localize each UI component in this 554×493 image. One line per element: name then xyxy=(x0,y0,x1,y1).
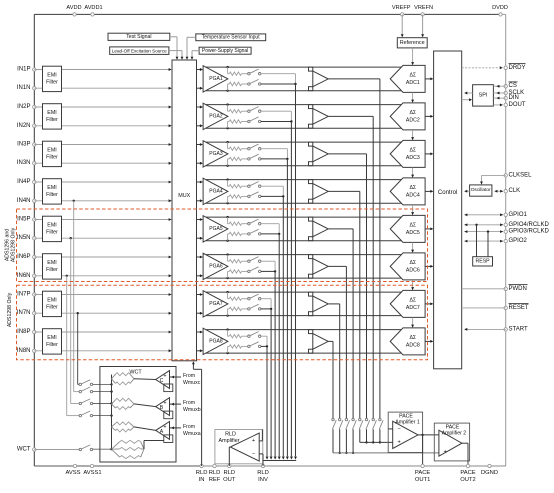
pin RLD INV xyxy=(257,464,269,483)
buffer amp ch7 xyxy=(309,292,329,316)
pin IN7N xyxy=(17,310,36,316)
wire PGA4 output bottom xyxy=(206,202,403,204)
svg-text:EMI: EMI xyxy=(47,110,56,116)
wire ch1 tap bottom xyxy=(261,83,297,85)
svg-text:ΔΣ: ΔΣ xyxy=(409,185,416,191)
svg-text:IN2P: IN2P xyxy=(17,104,30,110)
switch PGA2 top xyxy=(248,107,261,113)
svg-text:From: From xyxy=(183,373,195,379)
svg-text:Filter: Filter xyxy=(46,305,58,311)
PACE amplifier 1 block xyxy=(388,412,422,452)
wire RLD noninverting input xyxy=(259,430,262,441)
svg-text:OUT: OUT xyxy=(223,477,236,483)
wire pace amp 1 inverting stub xyxy=(388,428,393,430)
wire ch4 tap bottom xyxy=(261,195,284,197)
wire PACE bus ch2 xyxy=(328,116,373,418)
svg-text:IN7N: IN7N xyxy=(17,310,31,316)
svg-text:Wmuxb: Wmuxb xyxy=(183,407,201,413)
wire PGA7 output bottom xyxy=(206,314,403,316)
wire temperature sensor to MUX xyxy=(186,37,196,60)
svg-text:−: − xyxy=(252,451,255,457)
wire SPI to control xyxy=(464,92,472,95)
svg-text:ADC3: ADC3 xyxy=(406,155,420,161)
wire WCT resistor to amp B xyxy=(134,404,156,407)
svg-text:PGA3: PGA3 xyxy=(209,151,223,157)
svg-text:IN5N: IN5N xyxy=(17,235,31,241)
svg-text:IN7P: IN7P xyxy=(17,292,30,298)
svg-text:ΔΣ: ΔΣ xyxy=(409,222,416,228)
switch PACE ch5 xyxy=(352,418,356,429)
svg-text:ADC6: ADC6 xyxy=(406,267,420,273)
pin VREFP xyxy=(392,5,411,16)
svg-text:ΔΣ: ΔΣ xyxy=(409,110,416,116)
wire IN6P to MUX xyxy=(34,256,171,259)
pin IN2P xyxy=(17,104,36,110)
pin AVDD xyxy=(66,5,81,16)
pin WCT xyxy=(17,447,36,453)
svg-text:ΔΣ: ΔΣ xyxy=(409,297,416,303)
switch PGA5 bottom xyxy=(248,229,261,235)
wire test signal to MUX xyxy=(170,37,179,60)
wire reference chain to ADC4 xyxy=(411,167,414,177)
lead-off excitation source block xyxy=(110,47,169,55)
switch PACE ch4 xyxy=(359,418,363,429)
pin START xyxy=(464,326,528,332)
svg-text:+: + xyxy=(398,439,401,445)
svg-text:Filter: Filter xyxy=(46,342,58,348)
wire GPIO4 to RESP xyxy=(475,224,477,257)
pin AVSS1 xyxy=(83,464,101,476)
wire RLD IN to MUX xyxy=(192,361,202,466)
switch PGA5 top xyxy=(248,219,261,225)
wire MUX to PGA6 negative xyxy=(197,274,204,277)
pin DGND xyxy=(481,464,498,476)
label ADS1298 Only xyxy=(7,292,13,327)
pin VREFN xyxy=(414,5,433,16)
svg-text:ADC4: ADC4 xyxy=(406,192,420,198)
op-amp RLD xyxy=(219,431,260,461)
pin IN3P xyxy=(17,142,36,148)
ADC4 delta-sigma modulator xyxy=(390,178,425,205)
wire WCT internal bus xyxy=(111,375,113,450)
svg-text:CLKSEL: CLKSEL xyxy=(509,172,533,178)
svg-text:AVDD1: AVDD1 xyxy=(84,5,102,11)
svg-text:VREFN: VREFN xyxy=(414,5,433,11)
svg-text:Temperature Sensor Input: Temperature Sensor Input xyxy=(202,34,260,40)
switch PGA8 bottom xyxy=(248,342,261,348)
EMI filter ch1 xyxy=(43,66,62,91)
wire reference chain to ADC1 xyxy=(411,48,414,65)
svg-text:Amplifier 1: Amplifier 1 xyxy=(395,420,420,426)
svg-text:DRDY: DRDY xyxy=(509,65,526,71)
svg-text:RLD: RLD xyxy=(225,431,236,437)
svg-text:GPIO1: GPIO1 xyxy=(509,212,528,218)
buffer amp ch4 xyxy=(309,180,329,204)
wire MUX to PGA5 negative xyxy=(197,237,204,240)
wire VREFP to reference xyxy=(401,14,404,37)
switch PGA2 bottom xyxy=(248,117,261,123)
svg-text:MUX: MUX xyxy=(178,193,190,199)
wire RLD bus ch7 xyxy=(270,309,273,460)
svg-text:DOUT: DOUT xyxy=(509,102,526,108)
wire IN3N to MUX xyxy=(34,162,171,165)
switch PACE ch7 xyxy=(339,418,343,429)
svg-text:Control: Control xyxy=(438,190,457,196)
wire IN5N to MUX xyxy=(34,237,171,240)
svg-text:IN6N: IN6N xyxy=(17,273,31,279)
pin RLD IN xyxy=(196,464,208,483)
buffer amp ch5 xyxy=(309,217,329,241)
svg-text:ADC8: ADC8 xyxy=(406,342,420,348)
pin AVDD1 xyxy=(84,5,102,16)
wire GPIO3 to RESP xyxy=(487,230,489,256)
pin IN3N xyxy=(17,160,36,166)
pin IN5N xyxy=(17,235,36,241)
wire MUX to PGA3 negative xyxy=(197,162,204,165)
svg-text:IN5P: IN5P xyxy=(17,217,30,223)
resistor network WCT A xyxy=(112,422,135,432)
wire ch5 tap bottom xyxy=(261,233,280,235)
buffer amp ch1 xyxy=(309,67,329,91)
power-supply signal block xyxy=(199,47,251,54)
pin PWDN xyxy=(462,285,528,292)
wire RLD INV to inverting input xyxy=(259,454,263,466)
svg-text:VREFP: VREFP xyxy=(392,5,411,11)
svg-text:REF: REF xyxy=(209,477,221,483)
wire reference chain to ADC5 xyxy=(411,205,414,215)
wire IN5N tap to WCT switch xyxy=(70,237,80,404)
wire PACE bus ch3 xyxy=(328,154,366,418)
op-amp PGA8 xyxy=(203,328,228,354)
feedback loop WCT A xyxy=(164,435,173,443)
wire ch6 tap top xyxy=(261,261,275,271)
wire ADC4 to control xyxy=(425,190,433,193)
wire MUX to PGA3 positive xyxy=(197,143,204,146)
wire reference chain to ADC3 xyxy=(411,130,414,140)
svg-text:Wmuxa: Wmuxa xyxy=(183,431,201,437)
resistor PGA1 top xyxy=(228,67,248,75)
svg-text:IN8N: IN8N xyxy=(17,348,31,354)
svg-text:PWDN: PWDN xyxy=(509,286,527,292)
wire reference chain to ADC6 xyxy=(411,242,414,252)
svg-text:EMI: EMI xyxy=(47,148,56,154)
wire RLD bus ch3 xyxy=(286,159,289,460)
wire ADC8 to control xyxy=(425,340,433,343)
switch WCT input xyxy=(79,387,113,393)
svg-text:START: START xyxy=(509,326,528,332)
ADC2 delta-sigma modulator xyxy=(390,103,425,130)
pin GPIO1 xyxy=(464,212,527,218)
switch WCT input xyxy=(79,380,113,386)
PACE amplifier 2 block xyxy=(434,423,469,461)
switch PACE ch1 xyxy=(379,418,383,429)
wire MUX to PGA5 positive xyxy=(197,218,204,221)
reference block xyxy=(397,38,427,48)
wire IN3P to MUX xyxy=(34,143,171,146)
label From Wmuxb xyxy=(183,400,201,413)
pin CS xyxy=(493,82,517,89)
svg-text:EMI: EMI xyxy=(47,223,56,229)
resistor PGA3 top xyxy=(228,142,248,150)
pin CLKSEL xyxy=(480,172,532,184)
wire RLD bus ch5 xyxy=(278,234,281,460)
wire IN8P to MUX xyxy=(34,331,171,334)
svg-text:ADC5: ADC5 xyxy=(406,230,420,236)
wire RLD output xyxy=(229,447,230,466)
wire from Wmuxb xyxy=(170,403,182,406)
svg-text:RLD: RLD xyxy=(223,470,235,476)
svg-text:PACE: PACE xyxy=(415,470,430,476)
oscillator block xyxy=(470,185,492,196)
svg-text:ΔΣ: ΔΣ xyxy=(409,147,416,153)
chip boundary ADS129x xyxy=(34,14,505,466)
wire ch4 tap top xyxy=(261,186,283,196)
svg-text:+: + xyxy=(164,424,167,430)
svg-text:IN: IN xyxy=(199,477,205,483)
pin RESET xyxy=(462,304,529,311)
wire IN1P to MUX xyxy=(34,68,171,71)
pin GPIO2 xyxy=(464,238,527,244)
svg-text:Power-Supply Signal: Power-Supply Signal xyxy=(202,48,248,54)
resistor PGA8 bottom xyxy=(228,345,248,353)
wire PACE OUT2 xyxy=(462,443,468,466)
wire IN2N to MUX xyxy=(34,124,171,127)
svg-text:ΔΣ: ΔΣ xyxy=(409,335,416,341)
svg-text:+: + xyxy=(252,438,255,444)
wire PACE bus ch5 xyxy=(328,229,353,418)
pin IN1P xyxy=(17,67,36,73)
svg-text:PGA5: PGA5 xyxy=(209,226,223,232)
wire MUX to PGA2 positive xyxy=(197,106,204,109)
wire MUX to PGA6 positive xyxy=(197,256,204,259)
svg-text:Filter: Filter xyxy=(46,117,58,123)
wire ch3 tap bottom xyxy=(261,158,289,160)
resistor PGA2 bottom xyxy=(228,120,248,128)
switch PACE ch8 xyxy=(332,418,336,429)
RLD amplifier block xyxy=(215,430,263,464)
svg-text:Lead-Off Excitation Source: Lead-Off Excitation Source xyxy=(112,48,167,53)
resistor PGA4 top xyxy=(228,180,248,188)
op-amp PGA2 xyxy=(203,103,228,129)
svg-text:IN4P: IN4P xyxy=(17,179,30,185)
wire reference chain to ADC7 xyxy=(411,280,414,290)
svg-text:SPI: SPI xyxy=(479,93,488,99)
svg-text:WCT: WCT xyxy=(17,447,31,453)
switch WCT input xyxy=(79,399,113,405)
resistor network WCT output xyxy=(112,440,145,458)
pin IN7P xyxy=(17,292,36,298)
svg-text:B: B xyxy=(160,405,164,411)
EMI filter ch4 xyxy=(43,179,62,204)
svg-text:Test Signal: Test Signal xyxy=(126,34,151,40)
svg-text:IN6P: IN6P xyxy=(17,254,30,260)
pin IN2N xyxy=(17,123,36,129)
pin IN4N xyxy=(17,198,36,204)
buffer amp ch8 xyxy=(309,330,329,354)
wire reference chain to ADC8 xyxy=(411,317,414,327)
svg-text:IN3P: IN3P xyxy=(17,142,30,148)
control block xyxy=(434,51,462,369)
wire IN4N tap to WCT switch xyxy=(73,200,80,392)
label From Wmuxa xyxy=(183,424,201,437)
buffer amp ch2 xyxy=(309,105,329,129)
pin IN6N xyxy=(17,273,36,279)
resistor network WCT C xyxy=(112,373,135,385)
svg-text:Reference: Reference xyxy=(400,40,425,46)
svg-text:Oscillator: Oscillator xyxy=(471,187,491,193)
wire ch8 tap top xyxy=(261,336,267,346)
op-amp WCT B xyxy=(156,398,170,416)
resistor PGA3 bottom xyxy=(228,157,248,166)
EMI filter ch6 xyxy=(43,254,62,279)
op-amp PGA4 xyxy=(203,178,228,204)
svg-text:Wmuxc: Wmuxc xyxy=(183,380,201,386)
svg-text:EMI: EMI xyxy=(47,335,56,341)
svg-text:ΔΣ: ΔΣ xyxy=(409,72,416,78)
wire PGA2 output top xyxy=(206,103,403,105)
temperature sensor input block xyxy=(196,34,266,41)
wire VREFN to reference xyxy=(421,14,424,37)
wire PGA8 output bottom xyxy=(206,352,403,354)
wire pace amp1 to pace amp2 xyxy=(423,434,439,436)
wire IN4N to MUX xyxy=(34,199,171,202)
RESP block xyxy=(473,257,493,266)
wire WCT resistor to amp A xyxy=(134,427,156,431)
wire PGA8 output top xyxy=(206,328,403,330)
svg-text:DVDD: DVDD xyxy=(492,5,508,11)
wire RLD bus ch8 xyxy=(266,346,269,459)
svg-text:AVSS1: AVSS1 xyxy=(83,470,101,476)
wire IN1N to MUX xyxy=(34,87,171,90)
switch PACE ch3 xyxy=(365,418,369,429)
label From Wmuxc xyxy=(183,373,201,386)
svg-text:RLD: RLD xyxy=(257,470,269,476)
pin IN8P xyxy=(17,329,36,335)
wire ADC6 to control xyxy=(425,265,433,268)
svg-text:RESET: RESET xyxy=(509,305,529,311)
wire PGA2 output bottom xyxy=(206,127,403,129)
svg-text:PACE: PACE xyxy=(460,470,475,476)
svg-text:Filter: Filter xyxy=(46,155,58,161)
test signal block xyxy=(108,33,170,40)
op-amp PACE 1 xyxy=(393,414,420,449)
wire ch2 tap top xyxy=(261,111,291,121)
ADC8 delta-sigma modulator xyxy=(390,328,425,355)
pin DRDY xyxy=(462,64,526,71)
svg-text:ΔΣ: ΔΣ xyxy=(409,260,416,266)
svg-text:EMI: EMI xyxy=(47,260,56,266)
svg-text:Filter: Filter xyxy=(46,192,58,198)
wire from Wmuxa xyxy=(170,426,182,429)
svg-text:CLK: CLK xyxy=(509,188,521,194)
wire PGA3 output bottom xyxy=(206,165,403,167)
resistor PGA8 top xyxy=(228,330,248,338)
svg-text:PGA7: PGA7 xyxy=(209,301,223,307)
pin PACE OUT2 xyxy=(460,464,476,483)
resistor PGA6 top xyxy=(228,255,248,263)
svg-text:EMI: EMI xyxy=(47,185,56,191)
svg-text:Filter: Filter xyxy=(46,267,58,273)
svg-text:EMI: EMI xyxy=(47,73,56,79)
SPI block xyxy=(473,85,494,106)
dashed region ADS1298 only xyxy=(17,285,428,360)
switch PGA7 bottom xyxy=(248,304,261,310)
switch WCT pin xyxy=(34,445,112,451)
EMI filter ch5 xyxy=(43,216,62,241)
pin GPIO4/RCLKD xyxy=(464,222,549,228)
ADC5 delta-sigma modulator xyxy=(390,215,425,242)
wire PGA6 output top xyxy=(206,253,403,255)
svg-text:−: − xyxy=(398,426,401,432)
wire ch2 tap bottom xyxy=(261,120,293,122)
buffer amp ch6 xyxy=(309,255,329,279)
wire PGA1 output bottom xyxy=(206,90,403,92)
pin RLD OUT xyxy=(223,464,236,483)
wire control to SPI xyxy=(462,98,472,101)
wire PACE bus ch8 xyxy=(328,341,333,418)
switch PGA6 top xyxy=(248,257,261,263)
svg-text:ADC7: ADC7 xyxy=(406,305,420,311)
switch PGA7 top xyxy=(248,294,261,300)
svg-text:PGA4: PGA4 xyxy=(209,189,223,195)
svg-text:PGA8: PGA8 xyxy=(209,339,223,345)
wire WCT output resistors to amp A xyxy=(144,441,164,450)
pin IN1N xyxy=(17,85,36,91)
svg-text:GPIO2: GPIO2 xyxy=(509,238,528,244)
label ADS1296 and ADS1298 Only xyxy=(5,227,17,262)
wire MUX to PGA8 positive xyxy=(197,331,204,334)
svg-text:IN1P: IN1P xyxy=(17,67,30,73)
wire IN7N tap to WCT switch xyxy=(77,312,80,384)
wire ch7 tap bottom xyxy=(261,308,272,310)
switch PGA1 top xyxy=(248,69,261,75)
wire PGA3 output top xyxy=(206,141,403,143)
switch PGA6 bottom xyxy=(248,267,261,273)
svg-text:PGA1: PGA1 xyxy=(209,76,223,82)
EMI filter ch8 xyxy=(43,329,62,354)
wire ch7 tap top xyxy=(261,299,271,309)
wire PACE bus ch6 xyxy=(328,266,346,418)
op-amp PGA3 xyxy=(203,141,228,167)
wire PGA5 output bottom xyxy=(206,240,403,242)
svg-text:GPIO4/RCLKD: GPIO4/RCLKD xyxy=(509,222,550,228)
wire PACE channels 1-4 to pace amp 1 input xyxy=(360,429,393,443)
svg-text:+: + xyxy=(164,374,167,380)
feedback loop WCT B xyxy=(164,411,173,419)
svg-text:+: + xyxy=(444,449,447,455)
wire PACE OUT1 xyxy=(418,434,424,466)
wire PGA7 output top xyxy=(206,291,403,293)
wire ch8 tap bottom xyxy=(261,345,268,347)
switch PGA4 bottom xyxy=(248,192,261,198)
op-amp WCT C xyxy=(156,371,170,389)
svg-text:IN3N: IN3N xyxy=(17,160,31,166)
pin IN8N xyxy=(17,348,36,354)
svg-text:Amplifier 2: Amplifier 2 xyxy=(442,431,467,437)
wire RLD bus summing node xyxy=(263,460,296,462)
wire lead-off source to MUX xyxy=(169,51,184,60)
wire MUX to PGA8 negative xyxy=(197,349,204,352)
svg-text:C: C xyxy=(160,378,164,384)
svg-text:PGA6: PGA6 xyxy=(209,264,223,270)
svg-text:ADS1298 Only: ADS1298 Only xyxy=(7,292,13,327)
wire MUX to PGA7 positive xyxy=(197,293,204,296)
switch PGA3 top xyxy=(248,144,261,150)
wire IN8N to MUX xyxy=(34,349,171,352)
wire IN5P to MUX xyxy=(34,218,171,221)
svg-text:RLD: RLD xyxy=(196,470,208,476)
switch PACE ch6 xyxy=(345,418,349,429)
